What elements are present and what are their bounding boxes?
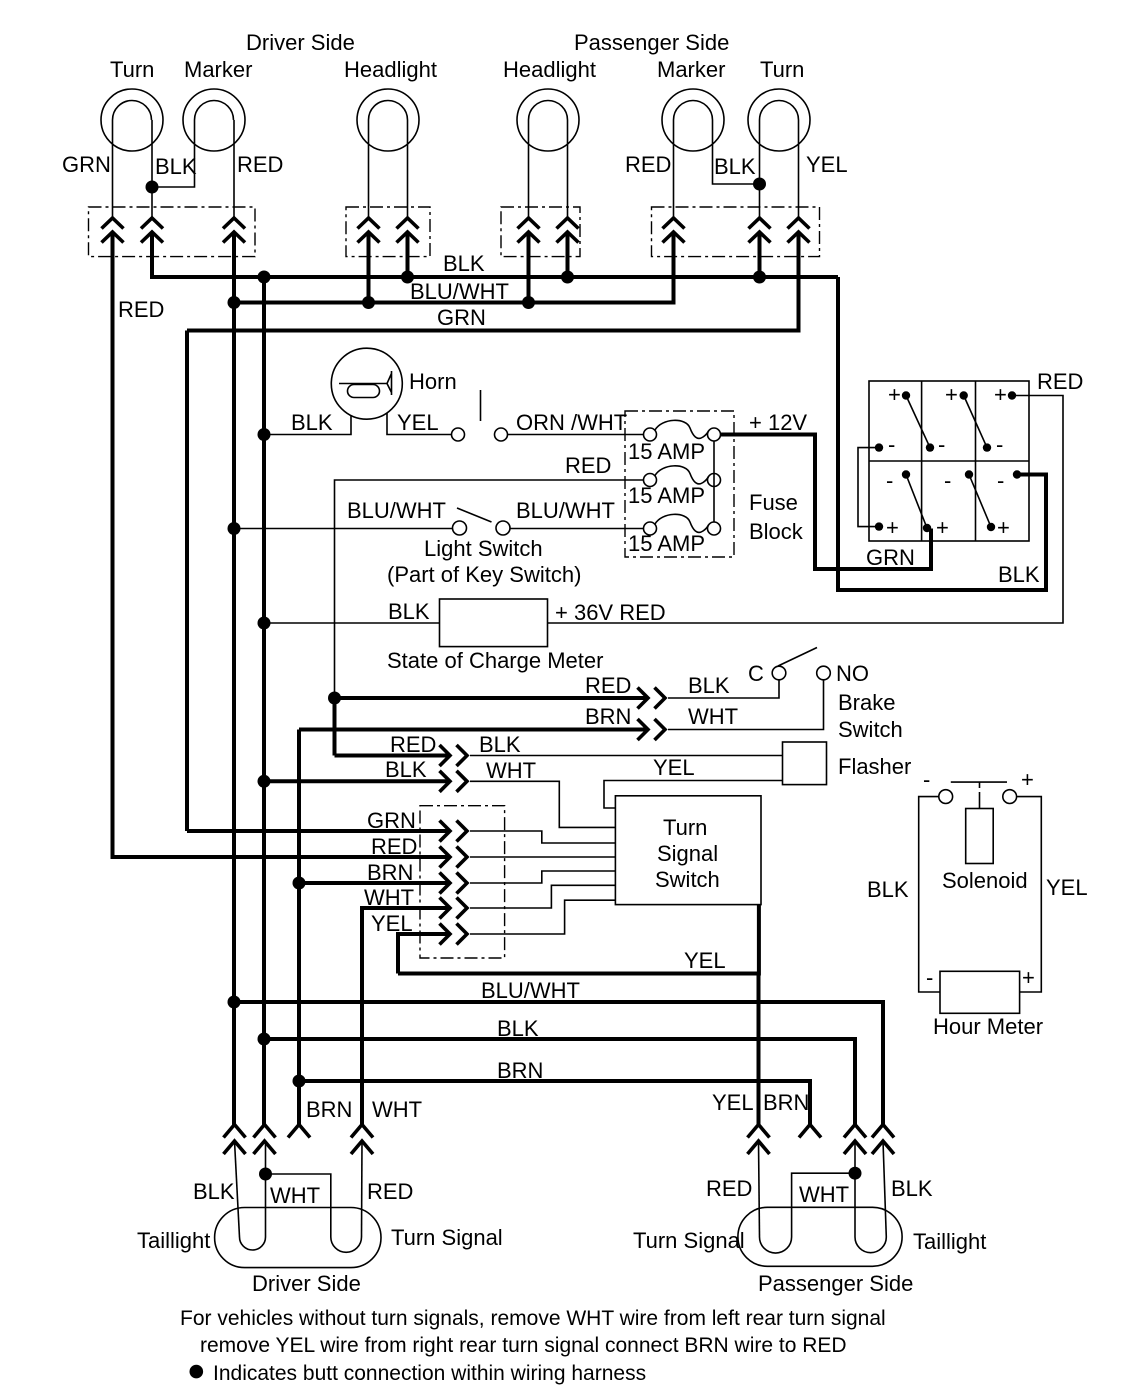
svg-text:+: + — [997, 515, 1010, 540]
state of charge meter M1 — [440, 599, 548, 647]
flasher F — [783, 742, 827, 785]
wire: BLU/WHT rear bus — [234, 1002, 883, 1125]
junction: BLU/WHT rear tap — [228, 996, 241, 1009]
svg-text:GRN: GRN — [437, 305, 486, 330]
svg-text:Turn: Turn — [760, 57, 804, 82]
wire: solenoid plus to hour meter — [1017, 797, 1042, 992]
svg-text:Switch: Switch — [838, 717, 903, 742]
svg-text:WHT: WHT — [799, 1182, 849, 1207]
svg-text:Horn: Horn — [409, 369, 457, 394]
wire: BLK rear bus — [264, 1039, 855, 1125]
svg-text:WHT: WHT — [688, 704, 738, 729]
svg-text:NO: NO — [836, 661, 869, 686]
butt connector: rear passenger wire4 — [872, 1125, 894, 1155]
wire: light switch to fuse3 — [510, 528, 644, 530]
wire: driver headlight left lead — [368, 120, 370, 218]
svg-text:YEL: YEL — [684, 948, 726, 973]
svg-text:+: + — [936, 515, 949, 540]
wire: driver turn GRN lead — [112, 120, 114, 218]
battery B2 polarity marks (bottom row) — [886, 468, 1010, 540]
wire: horn BLK lead — [264, 416, 351, 435]
svg-text:RED: RED — [371, 834, 417, 859]
svg-text:RED: RED — [390, 732, 436, 757]
lamp: passenger headlight — [517, 89, 579, 151]
svg-text:Headlight: Headlight — [344, 57, 437, 82]
svg-text:-: - — [886, 468, 893, 493]
svg-text:15 AMP: 15 AMP — [628, 483, 705, 508]
svg-text:GRN: GRN — [866, 545, 915, 570]
svg-text:ORN /WHT: ORN /WHT — [516, 410, 627, 435]
wire: headlight left drop to BLU/WHT — [367, 232, 371, 303]
driver turn signal bulb U — [331, 1237, 362, 1252]
svg-text:YEL: YEL — [806, 152, 848, 177]
wire: BLK branch vertical x264 — [262, 277, 266, 1125]
butt connector: passenger headlight left — [518, 218, 540, 243]
wire: battery positive RED to meter — [548, 396, 1064, 624]
svg-text:BLK: BLK — [388, 599, 430, 624]
wire: YEL into tss connector — [398, 934, 450, 974]
svg-text:(Part of Key Switch): (Part of Key Switch) — [387, 562, 581, 587]
junction: meter BLK tap — [258, 617, 271, 630]
svg-text:BLK: BLK — [155, 154, 197, 179]
wire: passenger turn YEL lead — [798, 120, 800, 218]
svg-text:Hour Meter: Hour Meter — [933, 1014, 1043, 1039]
svg-text:RED: RED — [565, 453, 611, 478]
lamp: passenger turn light — [748, 89, 810, 151]
wire: BLU/WHT into light switch — [234, 528, 453, 530]
wire: GRN into tss connector — [187, 829, 450, 833]
svg-text:BRN: BRN — [763, 1090, 809, 1115]
svg-text:RED: RED — [237, 152, 283, 177]
svg-text:BLK: BLK — [385, 757, 427, 782]
wire: YEL tss output — [470, 900, 615, 934]
svg-text:BLK: BLK — [998, 562, 1040, 587]
horn H1 — [331, 348, 402, 419]
junction: BLK bus passenger drop — [753, 271, 766, 284]
wire: driver taillight WHT lead — [265, 1141, 267, 1237]
fuse F3 15 AMP — [644, 514, 721, 535]
wire: BLK into meter — [264, 622, 440, 624]
svg-text:BLK: BLK — [291, 410, 333, 435]
wire: passenger headlight right lead — [567, 120, 569, 218]
passenger turn signal bulb U — [760, 1237, 792, 1253]
svg-text:BLK: BLK — [714, 154, 756, 179]
svg-text:RED: RED — [625, 152, 671, 177]
connector box: driver headlight harness — [346, 207, 430, 257]
svg-text:+ 36V RED: + 36V RED — [555, 600, 666, 625]
svg-text:+ 12V: + 12V — [749, 410, 807, 435]
junction: BLU/WHT bus passenger headlight — [522, 296, 535, 309]
connector box: turn signal switch harness — [420, 806, 505, 958]
fuse block box — [625, 411, 734, 557]
svg-text:Driver Side: Driver Side — [246, 30, 355, 55]
wire: passenger BLK drop — [758, 232, 762, 277]
svg-text:Taillight: Taillight — [137, 1228, 210, 1253]
wire: fuse block right bus bar — [713, 441, 715, 522]
svg-text:For vehicles without turn sign: For vehicles without turn signals, remov… — [180, 1307, 886, 1330]
svg-text:BLK: BLK — [193, 1179, 235, 1204]
wire: horn switch to fuse 1 — [508, 434, 644, 436]
wire: BLK to brake common — [668, 680, 779, 698]
wire: RED to brake butt connector — [335, 696, 649, 700]
svg-text:Indicates butt connection with: Indicates butt connection within wiring … — [213, 1362, 646, 1385]
svg-text:BLK: BLK — [891, 1176, 933, 1201]
svg-text:GRN: GRN — [62, 152, 111, 177]
svg-text:+: + — [1022, 965, 1035, 990]
svg-text:BRN: BRN — [306, 1097, 352, 1122]
wire: BRN into tss connector — [299, 881, 450, 885]
svg-text:Driver Side: Driver Side — [252, 1271, 361, 1296]
svg-text:Turn: Turn — [110, 57, 154, 82]
junction: BLK bus headlight — [401, 271, 414, 284]
wire: BRN rear bus — [299, 1081, 810, 1125]
wire: GRN tss output — [470, 831, 615, 843]
svg-text:BLK: BLK — [479, 732, 521, 757]
wire: BLK harness from driver connector to bus — [152, 232, 838, 277]
wire: driver headlight right lead — [407, 120, 409, 218]
brake switch SW3 — [772, 648, 830, 680]
wire: passenger headlight left drop — [527, 232, 531, 303]
svg-text:RED: RED — [585, 673, 631, 698]
svg-text:YEL: YEL — [397, 410, 439, 435]
battery B1 polarity marks — [888, 382, 1007, 457]
wire: passenger marker right lead jog BLK — [713, 120, 760, 184]
butt connector: tss WHT — [440, 898, 468, 919]
connector box: passenger marker/turn harness — [652, 207, 820, 257]
wire: RED harness long vertical left — [113, 232, 451, 857]
junction: RED brake tap — [328, 692, 341, 705]
svg-text:YEL: YEL — [653, 755, 695, 780]
battery bank: case grid — [869, 381, 1029, 541]
hour meter M2 — [940, 971, 1020, 1013]
wire: +12V from fuse block to battery tap — [721, 435, 932, 570]
svg-text:+: + — [888, 382, 901, 407]
connector box: passenger headlight harness — [501, 207, 580, 257]
wire: driver taillight BLK lead — [235, 1141, 240, 1237]
junction: driver BLK jog — [146, 181, 159, 194]
battery left side series jumper — [858, 448, 879, 527]
wire: BRN tss output — [470, 871, 615, 883]
butt connector: driver headlight right — [397, 218, 419, 243]
wire: driver turn right lead to junction — [151, 120, 153, 218]
junction: BLK rear tap — [258, 1033, 271, 1046]
junction: BRN tss tap — [293, 877, 306, 890]
svg-text:BLU/WHT: BLU/WHT — [347, 498, 446, 523]
battery jumper diagonals top row — [906, 396, 987, 448]
solenoid S1 — [939, 782, 1017, 863]
wire: horn YEL lead — [387, 413, 452, 435]
junction: passenger BLK jog — [753, 178, 766, 191]
wire: BLK to stop light butt connector — [264, 779, 450, 783]
connector box: driver turn/marker harness — [89, 207, 256, 257]
svg-text:WHT: WHT — [486, 758, 536, 783]
svg-text:remove YEL wire from right rea: remove YEL wire from right rear turn sig… — [200, 1334, 847, 1357]
svg-text:+: + — [994, 382, 1007, 407]
label: Turn Signal Switch — [655, 815, 720, 892]
lamp: driver turn light — [101, 89, 163, 151]
svg-text:Solenoid: Solenoid — [942, 868, 1028, 893]
note bullet — [190, 1365, 204, 1379]
wire: marker RED vertical long (to rear) — [232, 232, 236, 1125]
svg-text:-: - — [938, 432, 945, 457]
wire: YEL rear bus — [398, 905, 759, 974]
wire: GRN bus — [187, 232, 799, 331]
butt connector: driver marker RED — [223, 218, 245, 243]
svg-text:BRN: BRN — [585, 704, 631, 729]
svg-text:Passenger Side: Passenger Side — [758, 1271, 913, 1296]
svg-text:-: - — [996, 432, 1003, 457]
wire: solenoid minus to hour meter — [919, 797, 940, 992]
driver taillight bulb U — [240, 1237, 266, 1250]
wire: YEL flasher to turn signal switch — [604, 781, 783, 809]
junction: BLU/WHT bus headlight — [362, 296, 375, 309]
butt connector: tss YEL — [440, 924, 468, 945]
lamp: driver headlight — [357, 89, 419, 151]
wire: RED to flasher butt connector — [335, 754, 451, 758]
svg-text:15 AMP: 15 AMP — [628, 531, 705, 556]
wire: WHT tss output — [470, 885, 615, 908]
butt connector: driver turn GRN — [102, 218, 124, 243]
butt connector: passenger headlight right — [557, 218, 579, 243]
wire: passenger headlight right drop — [566, 232, 570, 277]
wire: driver turn signal RED lead — [361, 1141, 364, 1237]
svg-text:C: C — [748, 661, 764, 686]
svg-text:Brake: Brake — [838, 690, 895, 715]
wire: passenger taillight WHT lead — [854, 1141, 856, 1237]
svg-text:Flasher: Flasher — [838, 754, 911, 779]
fuse F1 15 AMP — [644, 420, 721, 441]
svg-text:Signal: Signal — [657, 841, 718, 866]
junction: driver WHT jumper — [259, 1168, 272, 1181]
svg-text:WHT: WHT — [372, 1097, 422, 1122]
wire: WHT into tss connector — [362, 908, 450, 1125]
wire: passenger taillight BLK lead — [883, 1141, 886, 1237]
butt connector: rear driver WHT — [351, 1125, 373, 1155]
svg-text:BLU/WHT: BLU/WHT — [481, 978, 580, 1003]
junction: light switch tap on x234 — [228, 522, 241, 535]
butt connector: rear passenger wire3 — [844, 1125, 866, 1155]
svg-text:Turn Signal: Turn Signal — [391, 1225, 503, 1250]
svg-text:State of Charge Meter: State of Charge Meter — [387, 648, 603, 673]
svg-text:-: - — [923, 767, 930, 792]
wire: WHT jumper to driver turn signal — [266, 1174, 331, 1237]
svg-text:Turn Signal: Turn Signal — [633, 1228, 745, 1253]
svg-text:Block: Block — [749, 519, 804, 544]
butt connector: rear passenger YEL — [748, 1125, 770, 1155]
wire: passenger turn signal YEL lead — [759, 1141, 760, 1237]
junction: BLK bus passenger headlight — [561, 271, 574, 284]
wire: BLK into flasher — [470, 755, 783, 757]
light switch SW2 — [453, 508, 511, 535]
butt connector: brake BRN/WHT — [638, 719, 666, 740]
butt connector: rear driver wire2 — [254, 1125, 276, 1155]
svg-text:-: - — [888, 432, 895, 457]
wire: YEL drop to passenger rear — [757, 974, 761, 1125]
svg-text:Headlight: Headlight — [503, 57, 596, 82]
butt connector: rear driver wire1 — [224, 1125, 246, 1155]
wire: RED vertical from brake tap — [333, 698, 337, 756]
butt connector: rear driver BRN (unconnected) — [288, 1125, 310, 1138]
wire: headlight right drop to BLK — [406, 232, 410, 277]
wire: BLU/WHT bus — [234, 232, 674, 303]
battery terminal dots bottom row — [875, 470, 1021, 532]
wire: driver marker left lead jog BLK — [152, 120, 195, 187]
fuse F2 15 AMP — [644, 466, 721, 487]
wire: BRN to brake butt connector — [299, 728, 648, 732]
svg-text:Taillight: Taillight — [913, 1229, 986, 1254]
svg-text:Fuse: Fuse — [749, 490, 798, 515]
wire: WHT to brake NO — [668, 680, 824, 730]
junction: BRN rear tap — [293, 1075, 306, 1088]
butt connector: driver headlight left — [358, 218, 380, 243]
battery jumper diagonals bottom row — [906, 475, 991, 529]
butt connector: tss GRN — [440, 821, 468, 842]
wire: GRN bus left drop — [185, 331, 189, 832]
junction: BLK bus x264 — [258, 271, 271, 284]
svg-text:Marker: Marker — [657, 57, 725, 82]
passenger taillight bulb U — [855, 1237, 886, 1253]
passenger rear lamp housing — [738, 1207, 902, 1266]
svg-text:BLK: BLK — [688, 673, 730, 698]
junction: BLK stop light tap — [258, 775, 271, 788]
wire: RED from fuse2 down to brake circuit — [335, 480, 644, 698]
battery terminal dots top row — [875, 391, 1016, 452]
wire: BLK bus drop to battery negative — [838, 277, 1046, 590]
svg-text:+: + — [945, 382, 958, 407]
svg-text:+: + — [886, 515, 899, 540]
wire: RED tss output — [470, 856, 615, 858]
svg-text:RED: RED — [367, 1179, 413, 1204]
butt connector: brake RED/BLK — [638, 688, 666, 709]
turn signal switch box — [615, 796, 761, 905]
butt connector: passenger marker RED — [663, 218, 685, 243]
wire: passenger turn left lead — [759, 120, 761, 218]
svg-text:RED: RED — [118, 297, 164, 322]
wire: WHT to turn signal switch — [470, 781, 615, 827]
butt connector: tss BRN — [440, 873, 468, 894]
svg-text:-: - — [944, 468, 951, 493]
svg-text:BLU/WHT: BLU/WHT — [516, 498, 615, 523]
butt connector: driver BLK — [141, 218, 163, 243]
svg-text:BLK: BLK — [867, 877, 909, 902]
svg-text:YEL: YEL — [712, 1090, 754, 1115]
svg-text:Switch: Switch — [655, 867, 720, 892]
junction: horn BLK at x264 — [258, 428, 271, 441]
svg-text:Passenger Side: Passenger Side — [574, 30, 729, 55]
butt connector: stop BLK/WHT — [440, 771, 468, 792]
svg-text:BLK: BLK — [443, 251, 485, 276]
butt connector: flasher RED/BLK — [440, 745, 468, 766]
butt connector: passenger turn YEL — [788, 218, 810, 243]
butt connector: passenger BLK — [749, 218, 771, 243]
svg-text:Turn: Turn — [663, 815, 707, 840]
svg-text:RED: RED — [1037, 369, 1083, 394]
wire: passenger marker RED lead — [673, 120, 675, 218]
horn button SW1 — [452, 390, 508, 441]
lamp: driver marker light — [183, 89, 245, 151]
svg-text:+: + — [1021, 767, 1034, 792]
svg-text:-: - — [926, 965, 933, 990]
svg-text:-: - — [997, 468, 1004, 493]
wire: passenger headlight left lead — [528, 120, 530, 218]
svg-text:WHT: WHT — [270, 1183, 320, 1208]
wire: WHT jumper to passenger turn signal — [792, 1173, 855, 1237]
lamp: passenger marker light — [662, 89, 724, 151]
svg-text:RED: RED — [706, 1176, 752, 1201]
driver rear lamp housing — [215, 1208, 381, 1268]
junction: passenger WHT jumper — [849, 1167, 862, 1180]
butt connector: tss RED — [440, 847, 468, 868]
svg-text:Light Switch: Light Switch — [424, 536, 543, 561]
wire: BRN harness drop — [297, 730, 301, 1125]
svg-text:Marker: Marker — [184, 57, 252, 82]
butt connector: rear passenger BRN (unconnected) — [799, 1125, 821, 1138]
svg-text:YEL: YEL — [1046, 875, 1088, 900]
wire: driver marker RED lead — [233, 120, 235, 218]
svg-text:BLU/WHT: BLU/WHT — [410, 279, 509, 304]
svg-text:15 AMP: 15 AMP — [628, 439, 705, 464]
junction: BLU/WHT bus left end — [228, 296, 241, 309]
